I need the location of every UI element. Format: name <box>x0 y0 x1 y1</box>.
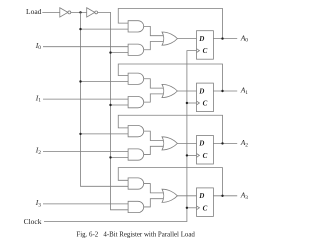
node Load tap stage1 junction <box>109 104 111 106</box>
svg-text:D: D <box>198 87 204 95</box>
wire OR to D stage1 <box>177 90 196 92</box>
or gate stage2 <box>162 137 177 150</box>
svg-text:I1: I1 <box>35 93 42 103</box>
node clock tap stage3 junction <box>186 207 188 209</box>
and gate load stage0 <box>128 44 144 55</box>
wire Load' tap stage2 <box>81 133 129 135</box>
wire feedback A3 <box>118 168 222 196</box>
wire AND1 to OR stage1 <box>143 79 163 88</box>
wire output A2 <box>213 142 237 144</box>
node Load tap stage0 junction <box>109 51 111 53</box>
wire AND1 to OR stage0 <box>143 26 163 35</box>
wire AND2 to OR stage3 <box>143 199 163 207</box>
svg-text:Load: Load <box>26 7 42 16</box>
or gate stage1 <box>162 84 177 97</box>
flip-flop FF3 <box>197 188 214 217</box>
flip-flop FF2 <box>197 136 214 165</box>
wire AND2 to OR stage1 <box>143 94 163 102</box>
wire Load tap stage1 <box>111 104 129 106</box>
node Load' tap stage2 junction <box>79 133 81 135</box>
wire buffered Load vertical bus <box>98 12 129 209</box>
wire OR to D stage2 <box>177 142 196 144</box>
or gate stage3 <box>162 189 177 202</box>
svg-text:I2: I2 <box>35 146 42 156</box>
node output A2 junction <box>221 142 223 144</box>
svg-text:Fig. 6-2 4-Bit Register with: Fig. 6-2 4-Bit Register with Parallel Lo… <box>76 231 195 238</box>
node Load' tap stage1 junction <box>79 80 81 82</box>
svg-text:I0: I0 <box>35 41 42 51</box>
wire Load tap stage0 <box>111 52 129 54</box>
node output A0 junction <box>221 37 223 39</box>
wire feedback A2 <box>118 115 222 143</box>
node output A1 junction <box>221 90 223 92</box>
svg-text:D: D <box>198 140 204 148</box>
and gate hold stage0 <box>128 21 144 32</box>
and gate hold stage1 <box>128 73 144 84</box>
wire Load' vertical bus <box>81 12 129 186</box>
wire clock tap stage3 <box>187 207 197 209</box>
svg-text:D: D <box>198 35 204 43</box>
and gate load stage3 <box>128 201 144 212</box>
svg-text:D: D <box>198 192 204 200</box>
wire between inverters <box>71 11 87 13</box>
wire clock tap stage2 <box>187 154 197 156</box>
wire I3 input <box>43 203 129 205</box>
node output A3 junction <box>221 195 223 197</box>
svg-text:Clock: Clock <box>24 217 42 226</box>
wire Load tap stage2 <box>111 156 129 158</box>
inverter 1 <box>60 8 71 17</box>
svg-text:A3: A3 <box>240 191 249 201</box>
node Load tap stage2 junction <box>109 156 111 158</box>
wire feedback A0 <box>118 9 222 39</box>
wire I1 input <box>43 98 129 100</box>
wire Load input <box>42 11 60 13</box>
and gate hold stage2 <box>128 126 144 137</box>
or gate stage0 <box>162 32 177 45</box>
and gate load stage1 <box>128 97 144 108</box>
wire feedback A1 <box>118 64 222 91</box>
wire Clock trunk <box>44 51 197 222</box>
wire OR to D stage3 <box>177 195 196 197</box>
inverter 2 <box>87 8 98 17</box>
svg-text:C: C <box>203 100 208 108</box>
node Load' junction <box>79 11 81 13</box>
wire Load' tap stage0 <box>81 28 129 30</box>
svg-text:A1: A1 <box>240 86 249 96</box>
node Load' tap stage0 junction <box>79 28 81 30</box>
svg-text:A2: A2 <box>240 138 249 148</box>
wire output A0 <box>213 38 237 40</box>
svg-text:C: C <box>203 152 208 160</box>
flip-flop FF0 <box>197 31 214 60</box>
wire I2 input <box>43 151 129 153</box>
wire AND1 to OR stage3 <box>143 184 163 193</box>
wire output A3 <box>213 195 237 197</box>
wire AND2 to OR stage2 <box>143 146 163 154</box>
wire output A1 <box>213 90 237 92</box>
wire clock tap stage1 <box>187 102 197 104</box>
wire Load' tap stage1 <box>81 81 129 83</box>
node clock tap stage2 junction <box>186 154 188 156</box>
and gate load stage2 <box>128 149 144 160</box>
wire I0 input <box>43 46 129 48</box>
svg-text:A0: A0 <box>240 33 249 43</box>
svg-text:C: C <box>203 204 208 212</box>
node clock tap stage1 junction <box>186 102 188 104</box>
wire AND1 to OR stage2 <box>143 131 163 140</box>
svg-text:I3: I3 <box>35 198 42 208</box>
wire AND2 to OR stage0 <box>143 42 163 50</box>
svg-text:C: C <box>203 47 208 55</box>
and gate hold stage3 <box>128 178 144 189</box>
flip-flop FF1 <box>197 83 214 112</box>
wire OR to D stage0 <box>177 38 196 40</box>
